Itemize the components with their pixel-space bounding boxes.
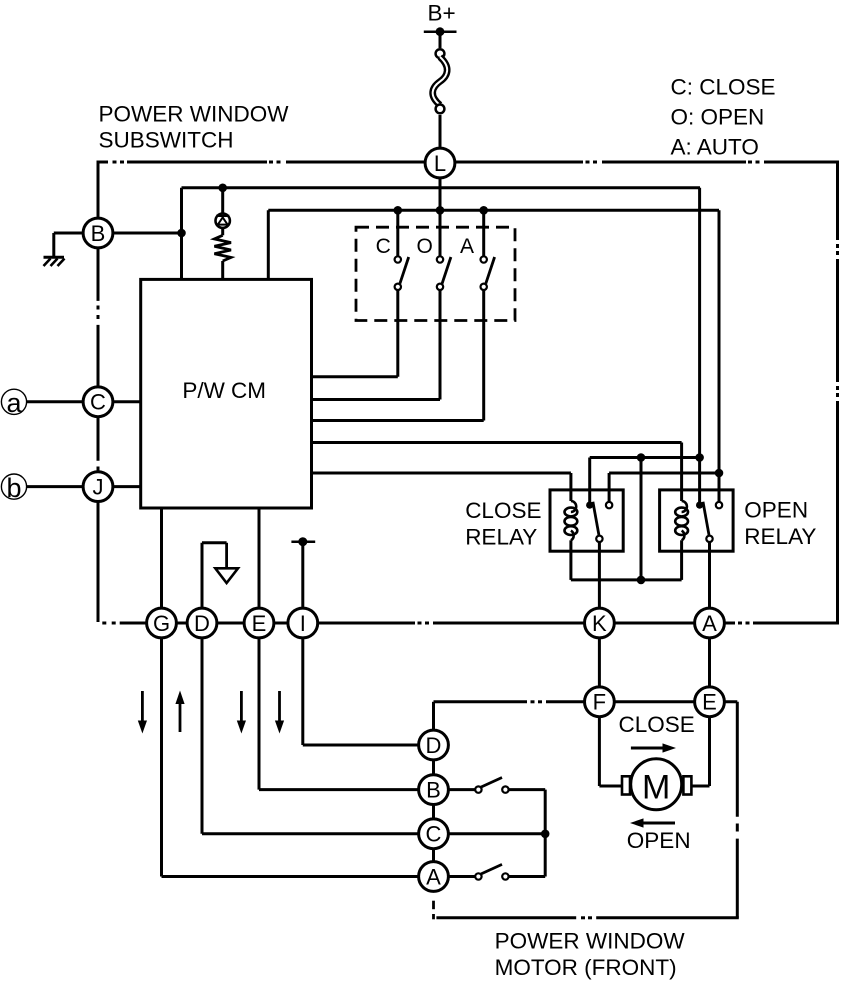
wire (coil ground interconnect) <box>571 578 682 581</box>
label POWER WINDOW MOTOR (FRONT) <box>495 929 686 980</box>
svg-text:CLOSE: CLOSE <box>465 498 541 523</box>
lamp (illumination LED) <box>216 214 230 228</box>
svg-text:SUBSWITCH: SUBSWITCH <box>99 127 234 152</box>
label legend C/O/A <box>671 75 776 160</box>
svg-text:C: CLOSE: C: CLOSE <box>671 75 776 100</box>
svg-text:b: b <box>6 473 21 503</box>
wire (B contact to switch) <box>449 788 475 791</box>
node (junction) <box>637 576 646 585</box>
wire (subswitch boundary, left edge) <box>97 161 100 623</box>
connector pin C (motor) <box>419 819 449 849</box>
svg-text:P/W CM: P/W CM <box>182 378 266 403</box>
switch (motor A limit switch) <box>475 864 508 879</box>
wire (C switch to P/W CM) <box>312 291 398 377</box>
svg-text:MOTOR (FRONT): MOTOR (FRONT) <box>495 955 677 980</box>
connector a <box>1 388 26 418</box>
label OPEN (motor direction) <box>627 828 691 853</box>
svg-text:C: C <box>426 822 442 847</box>
wire <box>27 400 83 403</box>
wire <box>54 232 82 235</box>
wire <box>439 115 442 147</box>
svg-text:POWER WINDOW: POWER WINDOW <box>495 929 686 954</box>
switch O <box>437 256 451 290</box>
svg-text:RELAY: RELAY <box>744 524 816 549</box>
connector pin K <box>585 608 615 638</box>
svg-text:J: J <box>93 475 104 500</box>
wire (P/W CM to G) <box>162 508 418 877</box>
wire <box>221 188 224 213</box>
wire (power rail down to open relay) <box>698 188 701 505</box>
svg-text:L: L <box>434 151 446 176</box>
svg-text:OPEN: OPEN <box>627 828 691 853</box>
svg-text:A: A <box>426 864 441 889</box>
connector pin B (motor) <box>419 775 449 805</box>
svg-text:I: I <box>300 611 306 636</box>
body ground arrow (D line) <box>202 543 238 583</box>
wire (I connector chain) <box>303 542 418 745</box>
connector pin B <box>83 218 113 248</box>
connector pin E <box>244 608 274 638</box>
wire <box>640 458 643 580</box>
svg-text:K: K <box>592 611 607 636</box>
svg-text:D: D <box>194 611 210 636</box>
svg-text:a: a <box>6 388 22 418</box>
arrow (up, D line) <box>175 691 184 733</box>
wire (motor assembly boundary, bottom edge) <box>436 916 738 919</box>
wire <box>27 485 83 488</box>
P/W CM control module U1 <box>141 279 312 508</box>
connector pin J <box>83 472 113 502</box>
svg-text:M: M <box>642 768 670 806</box>
node B+ terminal <box>424 27 457 36</box>
switch A <box>481 256 495 290</box>
wire (open coil to ground rail) <box>680 540 683 580</box>
wire <box>114 485 141 488</box>
svg-text:B: B <box>91 221 106 246</box>
wire <box>509 875 545 878</box>
connector pin A <box>695 608 725 638</box>
svg-text:B+: B+ <box>428 0 456 25</box>
svg-text:E: E <box>702 690 717 715</box>
wire (rail from L to switches) <box>268 210 719 279</box>
relay contacts (open relay) <box>696 502 722 543</box>
wire (F to motor) <box>599 718 622 786</box>
label OPEN RELAY <box>744 498 816 550</box>
wire <box>432 745 435 877</box>
wire <box>114 400 141 403</box>
wire (POWER WINDOW SUBSWITCH boundary, top edge) <box>97 161 840 164</box>
relay coil (close relay) <box>565 501 578 540</box>
svg-text:CLOSE: CLOSE <box>619 712 695 737</box>
svg-text:A: A <box>460 235 474 258</box>
connector pin D <box>187 608 217 638</box>
wire (A contact to switch) <box>449 875 475 878</box>
switch O label <box>417 235 433 258</box>
connector pin A (motor) <box>419 862 449 892</box>
relay box (CLOSE RELAY) <box>550 490 623 551</box>
wire <box>509 790 545 877</box>
wire (P/W CM to close relay coil) <box>312 473 571 501</box>
wire <box>439 32 442 48</box>
svg-text:O: O <box>417 235 433 258</box>
svg-text:RELAY: RELAY <box>465 525 537 550</box>
svg-text:B: B <box>426 778 441 803</box>
wire (close relay to K) <box>598 543 601 702</box>
svg-text:D: D <box>426 733 442 758</box>
wire (subswitch boundary, bottom edge) <box>102 622 839 625</box>
wire (C switch to rail) <box>396 210 399 256</box>
wire (L to O switch) <box>439 179 442 256</box>
wire (close coil to ground rail) <box>569 540 572 580</box>
wire (P/W CM to open relay coil) <box>312 443 682 502</box>
wire (subswitch boundary, right edge) <box>836 162 839 623</box>
wire (open relay to A) <box>708 543 711 702</box>
arrow (down, I line) <box>275 691 284 734</box>
relay box (OPEN RELAY) <box>660 490 734 551</box>
relay coil (open relay) <box>675 501 688 540</box>
node B+ label <box>428 0 456 25</box>
label CLOSE RELAY <box>465 498 541 550</box>
node (junction, A switch tap) <box>479 206 488 215</box>
node (junction, C switch tap) <box>394 206 403 215</box>
wire <box>221 228 224 235</box>
switch (motor B limit switch) <box>475 778 508 793</box>
node (junction) <box>637 453 646 462</box>
wire (relay contact common rail) <box>590 458 700 506</box>
fuse <box>433 49 448 113</box>
wire (motor assembly boundary, top edge) <box>434 702 738 730</box>
connector b <box>1 473 26 503</box>
node (junction, O switch tap) <box>436 206 445 215</box>
label POWER WINDOW SUBSWITCH <box>99 101 290 152</box>
wire (A switch to rail) <box>482 210 485 256</box>
svg-text:POWER WINDOW: POWER WINDOW <box>99 101 290 126</box>
connector pin F <box>585 687 615 717</box>
svg-text:C: C <box>376 235 391 258</box>
switch A label <box>460 235 474 258</box>
motor M <box>622 759 691 810</box>
node (junction) <box>541 830 550 839</box>
connector pin D (motor) <box>419 730 449 760</box>
svg-text:A: A <box>702 611 717 636</box>
wire (switch rail down to open relay NO contact) <box>718 210 721 505</box>
wire (dashed stub below connector A) <box>432 901 435 920</box>
svg-text:O: OPEN: O: OPEN <box>671 105 765 130</box>
resistor <box>214 235 231 261</box>
wire (C contact) <box>449 832 545 835</box>
arrow (down, G line) <box>138 691 147 734</box>
connector pin E (motor side) <box>695 687 725 717</box>
connector pin C (left) <box>83 387 113 417</box>
wire (E to motor) <box>691 718 709 786</box>
wire (P/W CM to E) <box>259 508 418 790</box>
svg-text:C: C <box>90 390 106 415</box>
arrow (open direction, left) <box>630 818 675 827</box>
label CLOSE (motor direction) <box>619 712 695 737</box>
svg-text:G: G <box>153 611 170 636</box>
connector pin G <box>147 608 177 638</box>
switch C <box>395 256 409 290</box>
connector pin L <box>425 148 455 178</box>
node (terminal above I) <box>291 537 315 546</box>
node (junction) <box>695 453 704 462</box>
wire <box>114 232 182 235</box>
node (junction B wire) <box>177 229 186 238</box>
arrow (down, E line) <box>237 691 246 734</box>
svg-text:A: AUTO: A: AUTO <box>671 135 759 160</box>
relay contacts (close relay) <box>586 502 612 543</box>
wire (motor assembly boundary, right edge) <box>736 702 739 918</box>
wire (close relay NO contact feed) <box>609 473 719 505</box>
svg-text:F: F <box>593 690 606 715</box>
svg-text:E: E <box>252 611 267 636</box>
wire (D connector chain) <box>202 543 418 834</box>
node (junction) <box>715 469 724 478</box>
wire (A switch to P/W CM) <box>312 291 484 421</box>
node (junction on B rail) <box>218 184 227 193</box>
arrow (close direction, right) <box>631 743 676 752</box>
wire (rail from B to relays) <box>182 188 701 280</box>
switch C label <box>376 235 391 258</box>
connector pin I <box>288 608 318 638</box>
svg-text:OPEN: OPEN <box>744 498 808 523</box>
wire <box>221 261 224 279</box>
ground <box>44 233 65 266</box>
switch box (dashed outline) <box>356 227 515 320</box>
wire (O switch to P/W CM) <box>312 291 441 400</box>
